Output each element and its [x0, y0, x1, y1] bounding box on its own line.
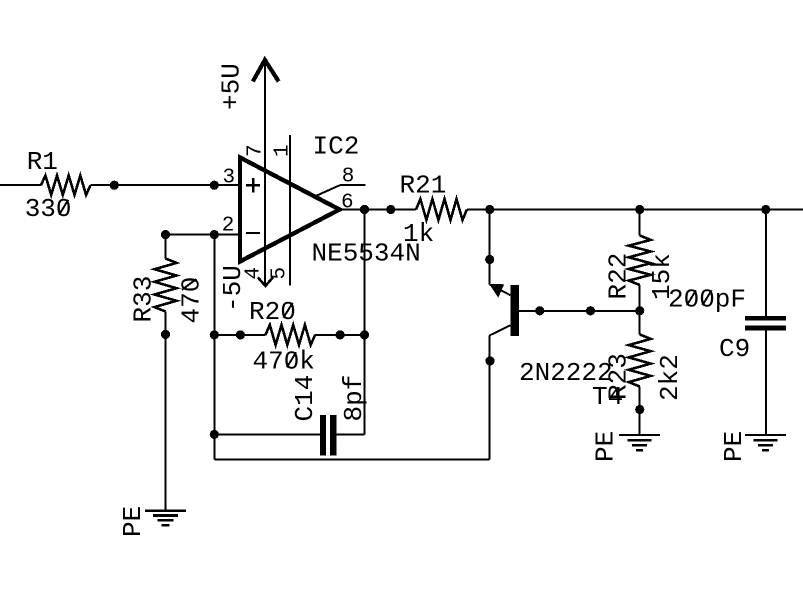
wire C9 bottom lead — [765, 330, 767, 434]
ground PE (R23) — [619, 435, 660, 450]
ground PE (C9) — [745, 435, 786, 450]
wire bottom feedback — [214, 459, 489, 461]
wire pin8 diagonal — [317, 185, 341, 196]
slash zero in 470k — [287, 352, 296, 367]
resistor R20 zigzag — [265, 325, 315, 345]
svg-text:7: 7 — [245, 144, 268, 157]
svg-text:2k2: 2k2 — [655, 354, 685, 401]
node collector joint — [485, 255, 494, 264]
node base joint 2 — [586, 306, 595, 315]
wire pin1-pin5 vertical — [289, 135, 291, 286]
node base joint 1 — [535, 306, 544, 315]
node pin3 junction — [210, 181, 219, 190]
node output joint — [386, 205, 395, 214]
svg-text:8: 8 — [342, 166, 355, 189]
wire R23 bottom lead — [639, 387, 641, 435]
wire pin2 stub — [166, 234, 241, 236]
wire C9 top lead — [765, 210, 767, 317]
slash zero in 200pF #1 — [687, 290, 696, 305]
slash zero in 200pF #2 — [702, 290, 711, 305]
op-amp U1 IC2 triangle — [240, 158, 340, 262]
transistor T4 emitter diagonal — [489, 325, 510, 335]
svg-text:C9: C9 — [719, 334, 750, 364]
svg-text:R23: R23 — [604, 353, 634, 400]
wire R22 bottom lead — [639, 285, 641, 335]
svg-text:3: 3 — [223, 167, 236, 190]
wire pin7-pin4 vertical — [264, 60, 266, 286]
capacitor C9 plates — [745, 316, 786, 330]
resistor R1 zigzag — [41, 176, 91, 195]
wire C14 right lead — [337, 433, 365, 435]
resistor R23 zigzag — [629, 335, 651, 387]
node output feedback — [360, 205, 369, 214]
svg-text:2: 2 — [222, 215, 235, 238]
op-amp plus input symbol — [246, 178, 260, 192]
svg-text:R21: R21 — [400, 171, 447, 201]
wire C14 left lead — [214, 433, 320, 435]
wire R21 to right edge — [467, 209, 803, 211]
transistor T4 collector diagonal with arrow — [489, 284, 510, 298]
node input joint — [110, 181, 119, 190]
node pin2 junction — [210, 230, 219, 239]
wire R20 left lead — [214, 334, 265, 336]
slash zero in 470 (rotated) — [182, 279, 196, 290]
wire pin8 horizontal — [340, 184, 365, 186]
node R22-R23 junction — [635, 306, 644, 315]
resistor R22 zigzag — [629, 236, 651, 286]
node R22 top junction — [635, 205, 644, 214]
svg-text:5: 5 — [269, 267, 292, 280]
wire opamp out to R21 — [340, 209, 417, 211]
node R33 bottom — [161, 330, 170, 339]
svg-text:PE: PE — [591, 431, 621, 462]
op-amp minus input symbol — [246, 232, 260, 234]
svg-text:1: 1 — [272, 144, 295, 157]
svg-text:15k: 15k — [647, 253, 677, 300]
wire R33 top lead — [165, 235, 167, 259]
svg-text:R33: R33 — [129, 276, 159, 323]
slash zero in 330 — [59, 200, 68, 215]
wire feedback column — [364, 210, 366, 435]
+5V supply arrow — [253, 60, 279, 82]
node collector junction — [485, 205, 494, 214]
svg-text:470k: 470k — [253, 347, 315, 377]
resistor R21 zigzag — [416, 199, 467, 220]
svg-text:R1: R1 — [27, 147, 58, 177]
wire R33 to ground — [165, 312, 167, 510]
resistor R33 zigzag — [155, 259, 177, 312]
wire R22 top lead — [639, 210, 641, 236]
svg-text:R22: R22 — [604, 253, 634, 300]
node R33 top — [161, 230, 170, 239]
node C14 junction — [210, 430, 219, 439]
svg-text:C14: C14 — [290, 375, 320, 422]
node R20 left junction — [210, 330, 219, 339]
wire R20 right lead — [315, 334, 364, 336]
svg-text:PE: PE — [118, 506, 148, 537]
svg-text:IC2: IC2 — [313, 132, 360, 162]
svg-text:+5U: +5U — [217, 63, 247, 110]
svg-text:1k: 1k — [403, 219, 434, 249]
wire collector column — [489, 210, 491, 285]
ground PE (R33) — [145, 511, 186, 525]
svg-text:4: 4 — [243, 267, 266, 280]
node R23 bottom joint — [635, 405, 644, 414]
node C9 top junction — [761, 205, 770, 214]
node R20 right junction — [360, 330, 369, 339]
node R20 right joint — [336, 330, 345, 339]
wire inverting column — [213, 235, 215, 460]
-5V supply arrow (down) — [258, 277, 273, 286]
slash zero in R20 — [283, 303, 292, 318]
wire R1 to pin3 — [91, 184, 241, 186]
wire base — [519, 310, 640, 312]
node R20 left joint — [236, 330, 245, 339]
svg-text:8pf: 8pf — [339, 375, 369, 422]
transistor Q T4 base bar — [510, 285, 519, 336]
wire input left — [0, 184, 41, 186]
wire emitter column — [488, 336, 490, 460]
svg-text:6: 6 — [341, 192, 354, 215]
svg-text:PE: PE — [719, 431, 749, 462]
node emitter joint — [485, 356, 494, 365]
capacitor C14 plates — [320, 415, 336, 456]
